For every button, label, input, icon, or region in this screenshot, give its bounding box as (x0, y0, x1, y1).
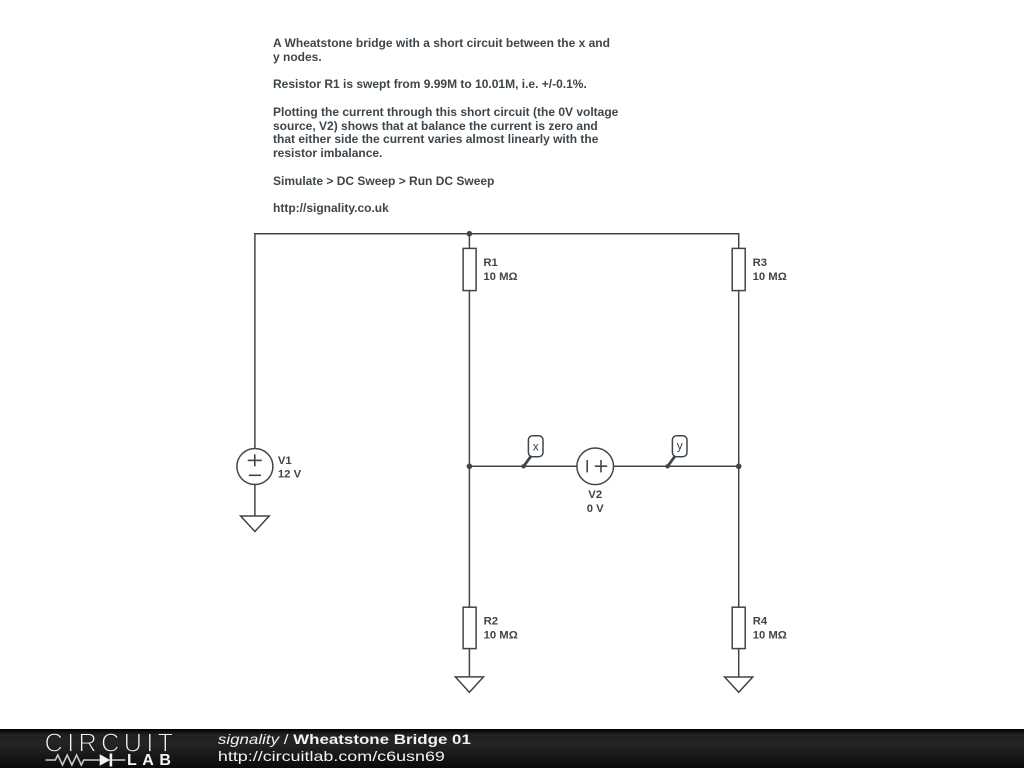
svg-text:12 V: 12 V (278, 469, 302, 481)
wire middle node to R2 (468, 466, 470, 607)
resistor R1 (463, 248, 476, 290)
label R1 value (483, 257, 517, 283)
ground under R2 (455, 677, 483, 692)
label R2 value (484, 616, 518, 642)
node flag y (665, 436, 687, 469)
svg-text:V2: V2 (588, 489, 602, 501)
logo wordmark LAB (127, 752, 176, 769)
wire V1 to ground (254, 485, 256, 517)
svg-text:R1: R1 (483, 257, 497, 269)
voltage source V1 (237, 449, 273, 485)
wire middle node to R4 (738, 466, 740, 607)
ground under V1 (241, 516, 270, 532)
svg-text:R4: R4 (753, 616, 768, 628)
logo resistor zigzag + diode (46, 754, 126, 767)
svg-text:R3: R3 (753, 257, 767, 269)
label R4 value (753, 616, 787, 642)
wire R1 top stub (468, 234, 470, 249)
node junction middle left (467, 464, 473, 470)
logo wordmark CIRCUIT (45, 730, 178, 758)
svg-text:http://circuitlab.com/c6usn69: http://circuitlab.com/c6usn69 (218, 748, 445, 764)
label V1 value (278, 455, 302, 481)
wire top rail (255, 233, 739, 235)
ground under R4 (725, 677, 753, 692)
svg-text:x: x (533, 440, 539, 454)
svg-text:signality / Wheatstone Bridge: signality / Wheatstone Bridge 01 (218, 731, 471, 747)
wire R4 to ground (738, 649, 740, 677)
svg-text:R2: R2 (484, 616, 498, 628)
svg-text:10 MΩ: 10 MΩ (483, 271, 517, 283)
wire middle rail x to y (469, 465, 738, 467)
node junction top (R1 tap) (467, 231, 473, 237)
svg-text:LAB: LAB (127, 752, 176, 768)
resistor R2 (463, 607, 476, 648)
resistor R4 (732, 607, 745, 648)
node junction middle right (736, 464, 742, 470)
wire R2 to ground (468, 649, 470, 677)
svg-text:10 MΩ: 10 MΩ (484, 629, 518, 641)
svg-text:10 MΩ: 10 MΩ (753, 629, 787, 641)
footer bar (0, 729, 1024, 768)
wire left vertical to V1 (254, 234, 256, 449)
svg-text:10 MΩ: 10 MΩ (753, 271, 787, 283)
voltage source V2 (577, 448, 614, 485)
label V2 value (587, 489, 604, 515)
resistor R3 (732, 248, 745, 290)
footer title: signality / Wheatstone Bridge 01 (218, 731, 471, 747)
label R3 value (753, 257, 787, 283)
wire R3 bottom to node y row (738, 291, 740, 467)
node flag x (521, 436, 543, 469)
wire R1 bottom to node x row (468, 291, 470, 467)
wire right vertical R3 stub (738, 234, 740, 249)
footer url (218, 748, 445, 764)
svg-text:0 V: 0 V (587, 503, 604, 515)
svg-text:y: y (677, 439, 683, 453)
svg-text:V1: V1 (278, 455, 292, 467)
